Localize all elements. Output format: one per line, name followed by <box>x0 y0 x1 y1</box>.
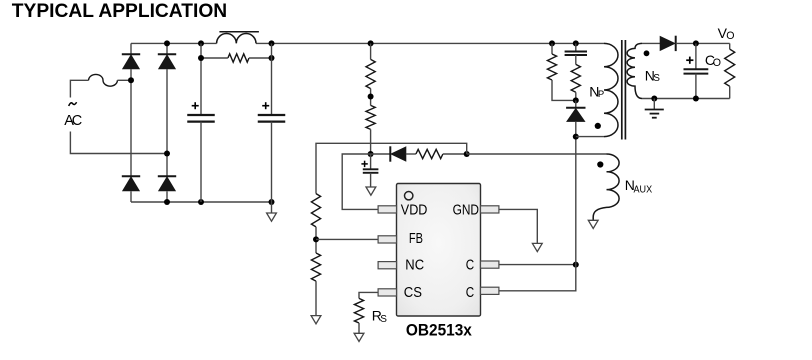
pin CS stub <box>378 289 396 296</box>
wire primary bottom <box>576 136 604 138</box>
node rail/startup <box>368 40 374 46</box>
svg-text:VDD: VDD <box>401 202 428 219</box>
pin C1 stub <box>481 261 499 268</box>
wire secondary bottom rail <box>642 98 730 100</box>
wire R8 bottom <box>575 92 577 100</box>
wire CO bottom <box>695 74 697 99</box>
label ~ AC tilde <box>69 102 77 106</box>
wire snubber to D6 <box>575 100 577 107</box>
svg-text:FB: FB <box>409 230 423 247</box>
svg-text:CS: CS <box>404 284 422 301</box>
svg-text:S: S <box>380 314 387 325</box>
pin 1 marker circle <box>405 192 413 200</box>
svg-text:AC: AC <box>64 113 82 129</box>
wire CS to RS <box>359 292 378 298</box>
svg-text:S: S <box>653 73 660 84</box>
wire load bottom <box>729 86 731 98</box>
wire drain vertical <box>575 137 577 265</box>
pin C2 stub <box>481 287 499 294</box>
resistor R3 (startup lower) <box>366 105 375 129</box>
wire snubber C top <box>575 43 577 51</box>
svg-text:P: P <box>598 89 604 100</box>
svg-text:O: O <box>726 30 734 42</box>
wire VDD node to diode <box>371 153 391 155</box>
capacitor C1 bulk <box>187 114 215 116</box>
wire L1 bypass left stub <box>200 43 202 114</box>
node bottom/C1 <box>198 199 204 205</box>
node bottom/C2 <box>269 199 275 205</box>
wire top rail right of inductor <box>256 42 604 44</box>
node primary bottom <box>573 134 579 140</box>
ground VDD cap (arrow) <box>366 187 376 195</box>
op-amp U1 body OB2513x <box>397 184 481 317</box>
ground FB divider (arrow) <box>311 316 321 324</box>
capacitor C4 snubber <box>565 51 587 53</box>
inductor L1 <box>217 34 256 44</box>
node VDD <box>368 151 374 157</box>
node CO bottom <box>693 96 699 102</box>
capacitor C2 bulk <box>258 114 286 116</box>
ground secondary (earth) <box>645 109 664 111</box>
node rail/C2 <box>269 40 275 46</box>
diode D5 (VDD charge) <box>389 146 391 161</box>
node AC-bottom junction <box>164 151 170 157</box>
node aux sense <box>464 151 470 157</box>
wire R4 to aux node <box>443 153 467 155</box>
wire snubber R top <box>551 43 553 54</box>
pin VDD stub <box>378 206 396 213</box>
node FB <box>313 236 319 242</box>
svg-text:AUX: AUX <box>634 184 653 195</box>
wire bridge right leg <box>166 43 168 54</box>
pin GND stub <box>481 206 499 213</box>
resistor R4 (VDD charge) <box>416 149 443 158</box>
wire CO top <box>695 43 697 69</box>
wire C1 bottom <box>200 122 202 202</box>
resistor R1 (parallel with L1) <box>228 54 249 62</box>
wire startup top <box>370 43 372 59</box>
svg-text:TYPICAL APPLICATION: TYPICAL APPLICATION <box>12 1 227 22</box>
resistor RS <box>354 298 363 323</box>
transformer core <box>621 40 623 140</box>
diode D7 (output rectifier) <box>675 36 677 51</box>
node rail/snubber-R <box>549 40 555 46</box>
svg-text:OB2513x: OB2513x <box>406 321 473 339</box>
node rail/snubber-C <box>573 40 579 46</box>
node R1 left <box>198 55 204 61</box>
wire RS to ground <box>358 323 360 333</box>
resistor R5 (FB upper) <box>311 194 320 227</box>
wire aux node to NAUX <box>467 153 607 155</box>
resistor R2 (startup upper) <box>366 59 375 88</box>
node R1 right <box>269 55 275 61</box>
wire sense jog <box>316 143 467 193</box>
svg-text:C: C <box>466 257 474 274</box>
svg-text:GND: GND <box>453 202 479 219</box>
NP polarity dot <box>595 123 601 129</box>
wire VDD cap to ground <box>370 173 372 187</box>
node AC-top junction <box>128 77 134 83</box>
wire snubber R bottom <box>552 80 576 100</box>
resistor R7 (snubber) <box>547 54 556 80</box>
transformer primary NP winding <box>604 43 618 136</box>
wire C1 pin to drain <box>499 264 576 266</box>
NAUX polarity dot <box>597 161 603 167</box>
fuse F1 <box>89 74 118 86</box>
node bottom/right-leg <box>164 199 170 205</box>
node VO/CO <box>693 40 699 46</box>
wire load top <box>729 43 731 49</box>
wire D5 to R4 <box>406 153 416 155</box>
wire C4 to R8 <box>575 55 577 64</box>
wire FB to pin <box>316 238 378 240</box>
wire bridge left leg <box>130 43 132 54</box>
NS polarity dot <box>644 50 650 56</box>
wire C2 bottom <box>271 122 273 202</box>
wire R6 to ground <box>315 281 317 316</box>
wire VDD cap stub <box>370 154 372 169</box>
wire ground stub <box>271 202 273 213</box>
pin NC stub <box>378 262 396 269</box>
wire AC source left side <box>70 80 88 97</box>
wire NS to output diode <box>642 42 660 44</box>
svg-text:NC: NC <box>405 257 424 274</box>
wire between startup resistors <box>370 89 372 106</box>
wire GND pin <box>499 209 537 243</box>
capacitor C3 VDD <box>363 168 379 170</box>
wire C2 pin to drain <box>499 265 576 291</box>
resistor R6 (FB lower) <box>311 253 320 281</box>
ground primary (arrow) <box>267 213 277 221</box>
pin FB stub <box>378 236 396 243</box>
node snubber bottom <box>573 97 579 103</box>
wire D6 to primary <box>575 121 577 136</box>
node rail/C1 <box>198 40 204 46</box>
node secondary gnd <box>651 96 657 102</box>
wire VDD to pin <box>342 154 378 209</box>
transformer aux NAUX winding <box>593 154 619 220</box>
wire R5 to FB node <box>315 227 317 253</box>
wire fuse to bridge <box>117 79 131 81</box>
bridge diode D1 (top-left) <box>122 53 140 55</box>
wire D7 to VO <box>676 42 730 44</box>
wire bottom rail <box>131 201 272 203</box>
node rail/right-leg <box>164 40 170 46</box>
node drain/C1 <box>573 262 579 268</box>
svg-text:C: C <box>466 284 474 301</box>
bridge diode D4 (bottom-right) <box>158 175 176 177</box>
resistor R9 (load) <box>725 49 735 86</box>
diode D6 (snubber) <box>566 107 585 109</box>
wire top rail left <box>131 42 217 44</box>
wire C2 top <box>271 43 273 114</box>
ground GND pin (arrow) <box>532 243 542 251</box>
resistor R8 (snubber series) <box>571 64 580 92</box>
bridge diode D2 (top-right) <box>158 53 176 55</box>
bridge diode D3 (bottom-left) <box>122 175 140 177</box>
node startup mid <box>368 94 374 100</box>
wire earth stub <box>653 99 655 110</box>
transformer secondary NS winding <box>627 43 642 98</box>
wire startup bottom <box>370 129 372 154</box>
inductor L1 core bar <box>219 31 259 33</box>
ground NAUX (arrow) <box>588 220 598 228</box>
svg-text:O: O <box>713 57 721 69</box>
capacitor CO output <box>684 68 709 70</box>
ground RS (arrow) <box>354 333 364 341</box>
